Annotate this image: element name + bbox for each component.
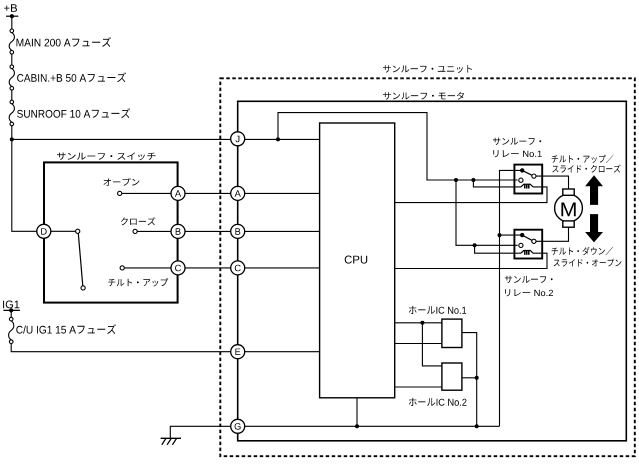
label close [121, 217, 156, 225]
junction dot J bus [276, 137, 280, 141]
wire hall feed to hall2 [422, 323, 442, 366]
motor M1 bottom brush [563, 221, 574, 227]
wire IG1 down to fuse [10, 310, 12, 317]
label tilt-up [108, 278, 168, 286]
label M motor [561, 203, 575, 217]
wire close contact to B [137, 230, 171, 232]
label sunroof motor [383, 92, 464, 100]
switch contact tilt-up [120, 266, 124, 270]
label CPU [345, 256, 368, 264]
motor M1 top brush [563, 189, 574, 195]
wire relay1 common to ground rail [500, 170, 523, 426]
wire relay2 common [500, 234, 523, 236]
wire relay2 coil feed [475, 245, 521, 253]
label tilt-up/slide-close line2 [552, 165, 620, 173]
wire J bus riser [278, 113, 518, 180]
junction dot cpu ground [355, 424, 359, 428]
label open [104, 178, 140, 186]
junction dot IG1 [9, 308, 13, 312]
wire +B down to fuse 1 [11, 16, 13, 29]
label sunroof relay No.2 line2 [505, 289, 553, 296]
junction dot relay2 common [498, 233, 502, 237]
+B power label [4, 4, 17, 12]
wire relay1 coil feed [473, 180, 521, 187]
relay U1 common dot [520, 168, 524, 172]
wire cpu ground pin [356, 398, 358, 427]
terminal C switch side [171, 261, 185, 275]
terminal A switch side [171, 186, 185, 200]
label sunroof switch [57, 153, 156, 161]
junction dot relay feed 1 [454, 178, 458, 182]
label tilt-down/slide-open line2 [554, 259, 622, 267]
hall IC No.1 box [442, 319, 462, 347]
switch lever pivot contact [76, 229, 80, 233]
junction dot relay2 coil feed [473, 243, 477, 247]
relay U2 NO contact [532, 239, 536, 243]
fuse SUNROOF 10A [9, 100, 14, 126]
wire switch A to unit A [178, 192, 320, 194]
motor M1 circle [555, 194, 583, 222]
junction dot relay1 coil feed [471, 178, 475, 182]
relay U2 armature [522, 235, 532, 240]
wire fuse1 to fuse2 [11, 54, 13, 65]
relay U1 NC contact [519, 178, 523, 182]
ground symbol [161, 438, 181, 445]
wire hall2 output [462, 377, 477, 379]
relay U2 NC contact [519, 243, 523, 247]
wire fuse3 to node [11, 126, 13, 140]
terminal J [231, 132, 245, 146]
terminal B [231, 224, 245, 238]
terminal E [231, 345, 245, 359]
label sunroof unit [383, 65, 472, 73]
fuse CABIN.+B 50A [9, 65, 14, 90]
wire D to lever pivot [50, 230, 76, 232]
sunroof switch box [44, 162, 178, 302]
wire cpu to relay1 coil [395, 187, 547, 203]
wire +B down to switch D [12, 139, 38, 231]
hall IC No.2 box [442, 363, 462, 390]
wire relay1 NO to motor [536, 176, 569, 189]
wire cpu to relay2 coil [395, 253, 547, 268]
wire relay2 NC feed [456, 180, 518, 245]
sunroof motor box [238, 101, 627, 441]
wire tilt-up contact to C [124, 267, 171, 269]
relay U1 armature [522, 170, 532, 175]
IG1 terminal tick [3, 309, 20, 311]
wire cpu to hall1 pin1 [395, 322, 442, 324]
IG1 power label [3, 301, 19, 309]
wire terminal G to ground [170, 426, 499, 438]
+B terminal tick [6, 15, 18, 17]
relay U1 coil [521, 184, 533, 188]
terminal B switch side [171, 224, 185, 238]
label tilt-up/slide-close line1 [552, 155, 614, 163]
wire hall1 output [462, 333, 477, 427]
switch lever arm [78, 233, 83, 286]
wire cpu to hall2 pin2 [395, 386, 442, 388]
label sunroof relay No.2 line1 [505, 276, 553, 283]
terminal A [231, 186, 245, 200]
junction dot hall ground [475, 424, 479, 428]
relay U2 coil [521, 251, 533, 255]
wire switch C to unit C [178, 267, 320, 269]
junction dot +B [10, 14, 14, 18]
wire IG1 fuse to terminal E [11, 344, 319, 352]
label sunroof relay No.1 line2 [493, 150, 542, 157]
sunroof unit dashed box [220, 78, 635, 456]
switch lever end contact [81, 286, 85, 290]
wire switch B to unit B [178, 230, 320, 232]
switch contact close [133, 229, 137, 233]
relay U1 NO contact [532, 174, 536, 178]
junction dot hall2 output [475, 376, 479, 380]
cpu box [320, 123, 395, 398]
wire +B bus to terminal J [12, 138, 320, 140]
terminal C [231, 261, 245, 275]
terminal G [231, 419, 245, 433]
wire open contact to A [122, 192, 171, 194]
label tilt-down/slide-open line1 [552, 247, 613, 255]
arrow tilt-up/slide-close [585, 175, 603, 205]
label sunroof relay No.1 line1 [493, 138, 541, 145]
label SUNROOF 10A fuse [17, 108, 130, 118]
label hall IC No.2 [409, 398, 467, 406]
relay U1 box [514, 165, 542, 194]
label hall IC No.1 [409, 306, 466, 314]
fuse C/U IG1 15A [9, 317, 14, 343]
wire relay2 NO to motor [536, 227, 569, 241]
label MAIN 200A fuse [17, 37, 112, 47]
relay U2 common dot [520, 233, 524, 237]
label C/U IG1 15A fuse [16, 324, 116, 334]
wire cpu to hall1 pin2 [395, 343, 442, 345]
label CABIN.+B 50A fuse [17, 72, 126, 82]
junction dot fuse bus [10, 137, 14, 141]
switch contact open [118, 191, 122, 195]
wire fuse2 to fuse3 [11, 90, 13, 100]
terminal D [37, 224, 51, 238]
fuse MAIN 200A [9, 29, 14, 54]
junction dot hall feed [420, 321, 424, 325]
relay U2 box [514, 230, 542, 259]
arrow tilt-down/slide-open [585, 214, 603, 242]
